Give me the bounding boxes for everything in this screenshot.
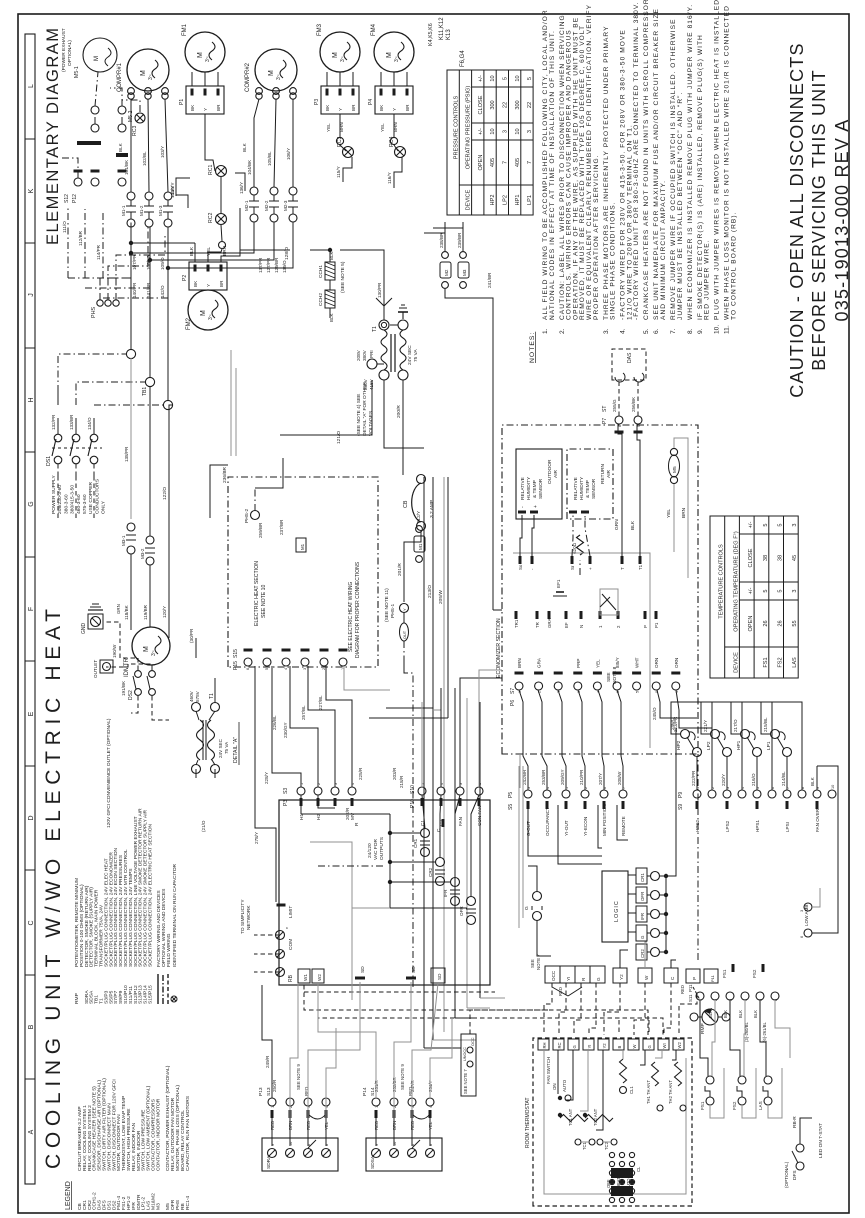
svg-text:EF: EF — [564, 622, 569, 628]
wire 237/BR 259/BR PHS-2 — [251, 511, 260, 520]
svg-text:RELATIVE: RELATIVE — [573, 477, 579, 500]
svg-text:P4: P4 — [368, 99, 374, 105]
svg-text:DEVICE: DEVICE — [733, 652, 739, 673]
svg-text:4: 4 — [429, 1106, 433, 1108]
svg-text:3.: 3. — [603, 328, 610, 334]
svg-text:M2-2: M2-2 — [264, 200, 269, 211]
svg-text:FS2: FS2 — [732, 1101, 737, 1110]
svg-text:BRN: BRN — [681, 507, 687, 518]
svg-text:3: 3 — [792, 523, 798, 526]
contact M5-2 chain — [118, 106, 126, 114]
svg-text:RC1-4: RC1-4 — [185, 1196, 191, 1210]
svg-text:RC: RC — [557, 1042, 562, 1048]
svg-text:5: 5 — [778, 523, 784, 526]
svg-text:PHS: PHS — [91, 307, 97, 318]
svg-text:G: G — [572, 1045, 577, 1048]
wire 191/BK — [106, 664, 152, 670]
svg-text:Y: Y — [206, 284, 211, 287]
svg-text:3: 3 — [527, 130, 533, 133]
contact M1-2 — [145, 192, 153, 200]
wire RC3 leads — [336, 137, 343, 144]
svg-text:M3: M3 — [462, 269, 467, 276]
svg-text:120V GFCI CONVENIENCE OUTLET (: 120V GFCI CONVENIENCE OUTLET (OPTIONAL) — [106, 718, 112, 828]
legend column 1 — [77, 1065, 191, 1210]
svg-text:5: 5 — [778, 589, 784, 592]
economizer inner box — [513, 553, 650, 748]
svg-text:LP2: LP2 — [706, 741, 712, 750]
svg-text:75 VA: 75 VA — [224, 741, 229, 754]
svg-text:TC1 ANT: TC1 ANT — [568, 1108, 573, 1126]
contact M5-1 chain — [91, 106, 99, 114]
svg-text:BR: BR — [351, 104, 356, 111]
contact M2-1 — [250, 187, 258, 195]
wire FM3 leads — [326, 72, 328, 86]
wire P6 to P5 — [538, 690, 547, 790]
G contact — [533, 912, 542, 921]
rail y480 — [479, 702, 481, 998]
wires M3 to IDMTR — [130, 554, 132, 630]
svg-text:WI: WI — [662, 1043, 667, 1048]
wire RC4 leads — [390, 137, 397, 144]
svg-text:K13: K13 — [446, 29, 452, 40]
economizer dashed box — [502, 425, 698, 754]
svg-text:5: 5 — [763, 523, 769, 526]
svg-text:BRN: BRN — [339, 122, 344, 132]
svg-text:PRP: PRP — [576, 659, 581, 668]
svg-text:FS1: FS1 — [763, 657, 769, 667]
plug P2 — [189, 262, 227, 290]
wire 200/R from T1 — [402, 380, 404, 475]
svg-text:140/PR: 140/PR — [132, 282, 137, 298]
svg-text:R: R — [354, 822, 360, 826]
svg-text:GND: GND — [81, 623, 87, 635]
TH2 TH ANT — [675, 1062, 682, 1086]
svg-text:257/BL: 257/BL — [301, 705, 306, 720]
terminal block TB1 — [126, 349, 135, 358]
wire GRN to P7 — [618, 424, 622, 556]
svg-text:134/O: 134/O — [87, 417, 92, 430]
svg-text:T1: T1 — [638, 564, 643, 570]
smoke detector SDRA — [262, 1138, 338, 1171]
svg-text:SEE ELECTRIC HEAT WIRING: SEE ELECTRIC HEAT WIRING — [348, 582, 354, 652]
svg-text:245/O: 245/O — [652, 707, 657, 720]
contact M2-3 — [289, 187, 297, 195]
svg-text:P13: P13 — [258, 1087, 264, 1096]
logic box — [602, 871, 628, 942]
wire 121/O vertical — [280, 380, 372, 435]
svg-text:ELEMENTARY DIAGRAM: ELEMENTARY DIAGRAM — [44, 28, 62, 245]
svg-text:DETAIL "A": DETAIL "A" — [233, 737, 239, 763]
svg-text:LIMIT: LIMIT — [288, 906, 294, 918]
run capacitor RC2 — [216, 214, 227, 225]
svg-text:Y2: Y2 — [602, 1043, 607, 1049]
motor FM3 — [320, 32, 360, 72]
svg-text:38: 38 — [778, 555, 784, 561]
pressure switch HP1 — [753, 748, 762, 757]
svg-text:130/PR: 130/PR — [377, 282, 382, 298]
OCC YI R G terminals — [545, 966, 560, 983]
svg-text:226/BL: 226/BL — [272, 715, 277, 730]
occupied switch box — [461, 1034, 476, 1096]
svg-text:210/PR: 210/PR — [579, 769, 584, 785]
svg-text:9.: 9. — [697, 328, 704, 334]
wire LED — [800, 1118, 812, 1144]
svg-text:BR: BR — [405, 104, 410, 111]
interior wires — [544, 1050, 686, 1194]
gray pair near CCH — [230, 350, 232, 456]
svg-text:DETAIL "A" FOR OTHER: DETAIL "A" FOR OTHER — [362, 382, 368, 436]
motor FM1 — [185, 32, 225, 72]
svg-text:HP2: HP2 — [490, 195, 496, 206]
svg-text:109/O: 109/O — [160, 257, 165, 270]
svg-text:P15: P15 — [233, 661, 239, 670]
svg-text:SEE NOTE 9: SEE NOTE 9 — [296, 1064, 301, 1090]
svg-text:FS2: FS2 — [752, 969, 757, 978]
svg-text:S5: S5 — [508, 804, 514, 810]
svg-text:BK: BK — [193, 280, 198, 287]
svg-text:M3-1: M3-1 — [121, 535, 126, 546]
svg-text:138/PR: 138/PR — [124, 446, 129, 462]
svg-text:BK: BK — [190, 104, 195, 111]
svg-text:8.: 8. — [687, 328, 694, 334]
svg-text:CLOSE: CLOSE — [478, 95, 484, 114]
svg-text:+/-: +/- — [748, 588, 754, 595]
svg-text:LP1: LP1 — [527, 195, 533, 205]
svg-text:M: M — [386, 52, 393, 58]
svg-text:190/W: 190/W — [112, 644, 117, 658]
svg-text:SD: SD — [360, 966, 366, 973]
mid verticals — [369, 717, 424, 719]
rail 212/Y — [403, 658, 405, 673]
dashed boundary below RB — [304, 991, 495, 993]
wires logic top to relays — [628, 931, 636, 933]
wire T1 top feeds — [376, 298, 384, 320]
svg-text:TC1: TC1 — [582, 1141, 587, 1150]
svg-text:M: M — [197, 52, 204, 58]
svg-text:M: M — [200, 310, 207, 316]
rail 205/W — [443, 477, 445, 1032]
svg-text:H: H — [28, 397, 35, 402]
svg-text:S3: S3 — [283, 788, 289, 794]
svg-text:M: M — [140, 70, 147, 76]
svg-text:10: 10 — [490, 75, 496, 81]
detail A transformer — [192, 765, 201, 774]
run capacitor RC4 — [395, 147, 406, 158]
wire ORN 245/O — [657, 690, 697, 718]
svg-text:PLUG WITH JUMPER WIRES IS REMO: PLUG WITH JUMPER WIRES IS REMOVED WHEN E… — [714, 0, 721, 320]
compressor 1 terminals — [128, 88, 135, 95]
svg-text:220/Y: 220/Y — [721, 774, 726, 786]
motor FM4 — [374, 32, 414, 72]
svg-text:CR2: CR2 — [428, 867, 433, 877]
svg-text:CON FAN: CON FAN — [477, 806, 482, 826]
dashed field wires W1 W2 — [304, 985, 648, 1035]
svg-text:103/Y: 103/Y — [160, 146, 165, 158]
svg-text:CLOSE: CLOSE — [748, 548, 754, 567]
svg-text:M1-3: M1-3 — [158, 205, 163, 216]
contact M1-3 — [164, 192, 172, 200]
svg-text:SEE: SEE — [530, 959, 535, 968]
dashed field wires from COM — [254, 934, 280, 936]
rail y467 — [466, 698, 468, 1008]
wire DETAIL A leads — [195, 769, 197, 778]
thermostat FS2 — [738, 1097, 746, 1105]
svg-text:24V SEC: 24V SEC — [218, 738, 223, 758]
svg-text:COOLING UNIT W/WO ELECTRIC HEA: COOLING UNIT W/WO ELECTRIC HEAT — [42, 609, 65, 1169]
svg-text:P6: P6 — [510, 700, 516, 706]
svg-text:RC1: RC1 — [208, 165, 214, 175]
svg-text:127/PR: 127/PR — [266, 257, 271, 273]
T1 left terminals — [379, 370, 389, 380]
svg-text:S7: S7 — [510, 688, 516, 694]
svg-text:S11: S11 — [688, 994, 693, 1002]
svg-text:256/BK: 256/BK — [631, 396, 636, 412]
svg-text:F6,G4: F6,G4 — [460, 50, 466, 67]
svg-text:SENSOR: SENSOR — [538, 478, 544, 499]
svg-text:213/O: 213/O — [427, 585, 433, 598]
contactor coil M2 — [440, 262, 451, 278]
svg-text:YEL: YEL — [595, 659, 600, 668]
svg-text:UNOCC: UNOCC — [463, 1047, 467, 1061]
svg-text:G: G — [28, 501, 35, 506]
row to M3-1 — [130, 358, 132, 519]
svg-text:FM2: FM2 — [186, 317, 192, 330]
wire FM4 leads — [380, 72, 382, 86]
wire 135/Y — [176, 195, 188, 208]
svg-text:(6)-261/BL: (6)-261/BL — [762, 1022, 767, 1042]
svg-text:241/BR: 241/BR — [487, 272, 492, 288]
svg-text:(SEE NOTE 11): (SEE NOTE 11) — [384, 588, 390, 622]
svg-text:(3)-260/BL: (3)-260/BL — [744, 1022, 749, 1042]
svg-text:OPEN: OPEN — [748, 616, 754, 632]
svg-text:TH1 TH ANT: TH1 TH ANT — [646, 1080, 651, 1104]
feed verticals to M2 — [131, 222, 254, 253]
TC2 ANT resistor — [585, 1115, 613, 1122]
svg-text:BLK: BLK — [810, 776, 815, 786]
wire P6 to P5 — [578, 690, 585, 790]
svg-text:114/PR: 114/PR — [96, 244, 101, 260]
svg-text:HUMIDITY: HUMIDITY — [579, 476, 585, 500]
wire BRN from M5 — [674, 438, 688, 578]
svg-text:SD: SD — [437, 973, 442, 980]
svg-text:SOCKET/PLUG CONNECTION, 24V EL: SOCKET/PLUG CONNECTION, 24V ELECTRIC HEA… — [148, 824, 154, 967]
svg-text:HP1: HP1 — [515, 195, 521, 206]
svg-text:405: 405 — [490, 158, 496, 167]
svg-text:S15/P15: S15/P15 — [148, 985, 154, 1004]
gray runs P13 — [290, 983, 298, 1118]
wire YEL to M5 — [673, 484, 675, 552]
svg-text:22: 22 — [503, 102, 509, 108]
svg-text:FAN SWITCH: FAN SWITCH — [546, 1057, 551, 1084]
svg-text:JUMPER MUST BE INSTALLED BETWE: JUMPER MUST BE INSTALLED BETWEEN “OCC” A… — [677, 92, 684, 320]
svg-text:CCH2: CCH2 — [318, 293, 324, 306]
motor IDMTR — [132, 627, 170, 665]
svg-text:45: 45 — [792, 555, 798, 561]
rail y455 — [454, 688, 456, 1018]
svg-text:K: K — [28, 188, 35, 193]
contact M2-2 — [270, 187, 278, 195]
ground GND — [88, 614, 103, 629]
svg-text:5: 5 — [527, 77, 533, 80]
SD terminals — [355, 977, 365, 980]
svg-text:GRA: GRA — [537, 657, 542, 668]
svg-text:BEFORE SERVICING THIS UNIT: BEFORE SERVICING THIS UNIT — [809, 69, 829, 371]
svg-text:YEL: YEL — [380, 123, 385, 132]
svg-text:CAPACITOR, RUN FAN MOTORS: CAPACITOR, RUN FAN MOTORS — [185, 1095, 191, 1171]
svg-text:+: + — [588, 567, 593, 570]
potentiometer RMP — [690, 1013, 698, 1021]
svg-text:OPERATING TEMPERATURE (DEG F°): OPERATING TEMPERATURE (DEG F°) — [733, 531, 739, 632]
svg-text:239/BR: 239/BR — [457, 232, 462, 248]
svg-text:VOLTAGES: VOLTAGES — [368, 411, 374, 436]
svg-text:3: 3 — [303, 668, 307, 670]
svg-text:300: 300 — [490, 100, 496, 109]
svg-text:M: M — [332, 52, 339, 58]
svg-text:M: M — [94, 56, 100, 61]
inner box top pins — [519, 556, 522, 564]
svg-text:CR1: CR1 — [413, 838, 418, 848]
TC1 ANT resistor — [560, 1115, 588, 1122]
wire P6 to P5 — [519, 690, 528, 790]
svg-text:(21/O: (21/O — [201, 820, 206, 832]
svg-text:405: 405 — [515, 158, 521, 167]
transformer T1 — [379, 320, 389, 330]
svg-text:K4,K5,K6: K4,K5,K6 — [428, 23, 434, 46]
svg-text:*: * — [286, 927, 292, 929]
dashed web to terminals — [544, 983, 552, 1035]
svg-text:7: 7 — [527, 161, 533, 164]
electric heat section dashed box — [228, 477, 378, 667]
svg-text:REMOTE: REMOTE — [621, 816, 626, 836]
svg-text:NOTES:: NOTES: — [529, 332, 536, 363]
svg-text:OPTIONAL): OPTIONAL) — [67, 40, 73, 66]
svg-text:55: 55 — [792, 620, 798, 626]
svg-text:TB1: TB1 — [142, 387, 148, 396]
legend line symbols — [157, 974, 159, 1004]
svg-text:RMP: RMP — [700, 1023, 706, 1034]
svg-text:W1: W1 — [303, 974, 308, 981]
zone band — [25, 34, 35, 1184]
svg-text:208V: 208V — [356, 349, 361, 361]
svg-text:LP1: LP1 — [766, 741, 772, 750]
svg-text:T1: T1 — [372, 326, 378, 332]
svg-text:S15: S15 — [233, 649, 239, 658]
wires from relay contacts to P10 — [422, 795, 425, 829]
svg-text:RC3: RC3 — [132, 126, 138, 136]
svg-text:6: 6 — [800, 936, 804, 938]
wire PRI left — [384, 380, 424, 448]
svg-text:M2: M2 — [444, 269, 449, 276]
svg-text:209/GY: 209/GY — [560, 769, 565, 785]
svg-text:TH2 TH ANT: TH2 TH ANT — [668, 1080, 673, 1104]
power row L3 — [167, 227, 169, 401]
svg-text:5: 5 — [763, 589, 769, 592]
svg-text:SD: SD — [411, 966, 417, 973]
svg-text:129/BR: 129/BR — [274, 257, 279, 273]
svg-text:LEGEND: LEGEND — [65, 1181, 72, 1210]
svg-text:104/BK: 104/BK — [247, 159, 252, 175]
svg-text:75 VA: 75 VA — [413, 348, 419, 362]
svg-text:S10: S10 — [410, 785, 416, 794]
fan over loop — [812, 766, 838, 933]
svg-text:CRANKCASE HEATERS ARE NOT FOUN: CRANKCASE HEATERS ARE NOT FOUND IN UNITS… — [643, 0, 650, 320]
svg-text:RB: RB — [288, 974, 294, 982]
svg-text:6.: 6. — [653, 328, 660, 334]
svg-text:PHS-2: PHS-2 — [244, 509, 250, 523]
rail 213/O — [432, 477, 434, 1040]
svg-text:5: 5 — [265, 668, 269, 670]
svg-text:575-3-60: 575-3-60 — [82, 494, 88, 514]
dashdot drops to TB1 — [57, 392, 59, 405]
svg-text:NOTE 7: NOTE 7 — [536, 954, 541, 970]
svg-text:& TEMP: & TEMP — [532, 480, 538, 498]
svg-text:TR: TR — [535, 622, 540, 628]
svg-text:5.: 5. — [643, 328, 650, 334]
svg-text:3: 3 — [800, 910, 804, 912]
svg-text:P: P — [692, 977, 697, 980]
vertical joins x500 — [424, 717, 448, 719]
svg-text:135/Y: 135/Y — [170, 182, 176, 195]
svg-text:1.: 1. — [542, 328, 549, 334]
svg-text:P1: P1 — [654, 622, 659, 628]
svg-text:YI-OUT: YI-OUT — [564, 820, 569, 836]
svg-text:201/R: 201/R — [397, 563, 403, 576]
svg-text:PHS-1: PHS-1 — [390, 604, 396, 618]
svg-text:TEMPERATURE CONTROLS: TEMPERATURE CONTROLS — [719, 544, 725, 619]
svg-text:102/BL: 102/BL — [142, 151, 147, 166]
svg-text:M5: M5 — [672, 466, 678, 473]
svg-text:P1: P1 — [179, 99, 185, 105]
dashed wire occ box — [470, 1010, 552, 1034]
svg-text:CONTACTOR, INDOOR MOTOR: CONTACTOR, INDOOR MOTOR — [155, 1098, 161, 1171]
svg-text:4: 4 — [284, 668, 288, 670]
wire 130/PR to CCH — [340, 250, 384, 306]
svg-text:W2: W2 — [317, 974, 322, 981]
svg-text:107/PR: 107/PR — [132, 254, 137, 270]
svg-text:278/Y: 278/Y — [254, 832, 259, 844]
svg-text:CONDUCTORS: CONDUCTORS — [94, 478, 100, 514]
svg-text:P11: P11 — [710, 974, 715, 982]
svg-text:GRA: GRA — [547, 618, 552, 628]
svg-text:OCCUPANCY: OCCUPANCY — [545, 807, 550, 836]
svg-text:OCC: OCC — [471, 1037, 475, 1046]
svg-text:BLK: BLK — [189, 246, 195, 256]
svg-text:115/Y: 115/Y — [336, 166, 341, 178]
svg-text:G: G — [640, 935, 645, 939]
svg-text:BK: BK — [325, 104, 330, 111]
svg-text:OPERATING PRESSURE (PSIG): OPERATING PRESSURE (PSIG) — [466, 86, 472, 170]
svg-text:11.: 11. — [724, 325, 731, 334]
svg-text:W: W — [632, 1045, 637, 1049]
svg-text:FS2: FS2 — [778, 657, 784, 667]
svg-text:3.2 AMP: 3.2 AMP — [429, 500, 435, 518]
svg-text:1: 1 — [375, 1106, 379, 1108]
run capacitor RC1 — [216, 166, 227, 177]
P P11 boxes — [686, 969, 700, 983]
room thermostat dashed box — [533, 1038, 692, 1206]
wires G contact — [528, 866, 537, 892]
svg-text:Sr: Sr — [570, 565, 575, 570]
svg-text:101/BK: 101/BK — [124, 159, 129, 175]
svg-text:YEL: YEL — [206, 247, 212, 256]
motor COMPR#2 — [255, 49, 297, 91]
svg-text:T: T — [620, 567, 625, 570]
compressor1 terminals — [128, 93, 134, 99]
dashdot from economizer to Y2 area — [697, 754, 699, 960]
svg-text:10.: 10. — [714, 325, 721, 334]
svg-text:A: A — [28, 1129, 35, 1134]
svg-text:(OPTIONAL): (OPTIONAL) — [784, 1161, 789, 1188]
